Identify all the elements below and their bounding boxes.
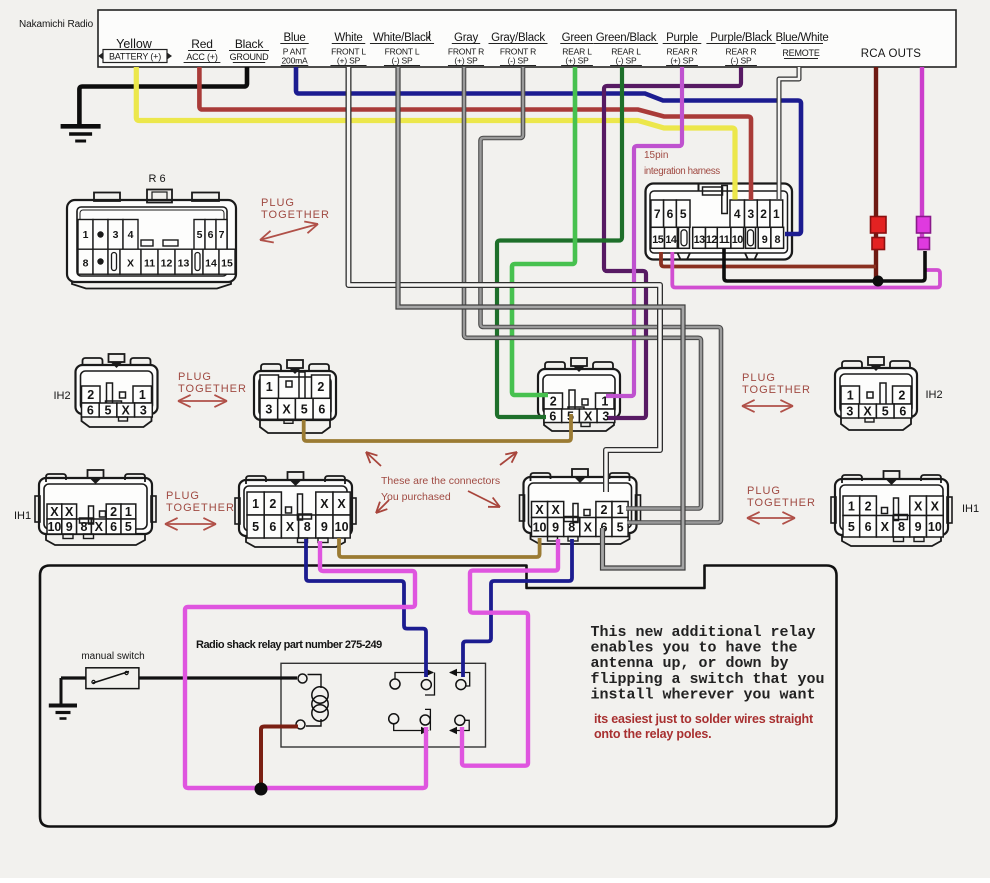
svg-text:GROUND: GROUND [230,52,269,62]
svg-text:2: 2 [110,505,117,519]
svg-text:6: 6 [667,207,674,221]
svg-text:6: 6 [208,229,214,241]
svg-text:14: 14 [205,258,217,270]
svg-text:White/Black: White/Black [373,32,431,44]
svg-text:15: 15 [652,234,664,246]
svg-text:6: 6 [865,520,872,534]
svg-text:4: 4 [734,207,741,221]
svg-text:9: 9 [915,520,922,534]
svg-text:5: 5 [197,229,203,241]
svg-text:(+) SP: (+) SP [337,56,361,66]
svg-text:X: X [551,503,560,517]
svg-text:13: 13 [178,258,190,270]
svg-text:3: 3 [265,402,272,416]
svg-text:TOGETHER: TOGETHER [178,383,247,395]
svg-text:6: 6 [110,520,117,534]
svg-text:Gray: Gray [454,32,478,44]
svg-text:5: 5 [882,405,889,419]
svg-text:X: X [584,521,593,535]
svg-text:enables you to have the: enables you to have the [591,640,798,657]
svg-text:13: 13 [694,234,706,246]
svg-text:9: 9 [762,234,768,246]
svg-text:(-) SP: (-) SP [616,56,638,66]
svg-text:Radio shack relay part number: Radio shack relay part number 275-249 [196,639,382,651]
svg-text:(-) SP: (-) SP [731,56,753,66]
svg-text:6: 6 [549,409,556,423]
svg-text:(+) SP: (+) SP [565,56,589,66]
svg-text:flipping a switch that you: flipping a switch that you [591,671,825,688]
svg-text:12: 12 [706,234,718,246]
svg-text:2: 2 [600,503,607,517]
svg-text:TOGETHER: TOGETHER [261,209,330,221]
svg-text:9: 9 [66,520,73,534]
svg-text:Black: Black [235,37,265,51]
svg-text:3: 3 [113,229,119,241]
svg-text:11: 11 [719,234,730,246]
svg-text:2: 2 [87,388,94,402]
svg-text:11: 11 [144,258,155,270]
svg-text:1: 1 [266,380,273,394]
svg-text:2: 2 [550,395,557,409]
svg-text:X: X [122,404,131,418]
svg-text:1: 1 [83,229,89,241]
svg-text:Purple: Purple [666,32,698,44]
svg-text:12: 12 [161,258,173,270]
svg-text:1: 1 [847,389,854,403]
svg-text:BATTERY (+): BATTERY (+) [109,52,161,62]
svg-text:5: 5 [105,404,112,418]
svg-text:7: 7 [219,229,225,241]
svg-text:5: 5 [680,207,687,221]
svg-text:10: 10 [47,520,61,534]
svg-text:6: 6 [899,405,906,419]
svg-text:5: 5 [617,521,624,535]
svg-text:2: 2 [269,497,276,511]
svg-text:X: X [95,520,104,534]
svg-text:8: 8 [774,234,780,246]
svg-text:X: X [50,505,59,519]
svg-text:9: 9 [552,521,559,535]
svg-text:3: 3 [748,207,755,221]
svg-text:X: X [337,497,346,511]
svg-text:PLUG: PLUG [747,485,781,497]
svg-text:PLUG: PLUG [742,372,776,384]
svg-text:(-) SP: (-) SP [392,56,414,66]
svg-text:REMOTE: REMOTE [782,48,819,58]
svg-text:its easiest just to solder wir: its easiest just to solder wires straigh… [594,712,814,726]
svg-text:Purple/Black: Purple/Black [710,32,772,44]
svg-text:X: X [286,520,295,534]
svg-text:Red: Red [191,37,212,51]
svg-text:PLUG: PLUG [178,371,212,383]
svg-text:integration harness: integration harness [644,166,720,177]
svg-text:X: X [320,497,329,511]
svg-text:7: 7 [654,207,661,221]
svg-text:10: 10 [335,520,349,534]
svg-text:6: 6 [318,402,325,416]
svg-text:Nakamichi Radio: Nakamichi Radio [19,19,94,30]
svg-text:White: White [334,32,362,44]
svg-text:3: 3 [846,405,853,419]
svg-text:ACC (+): ACC (+) [186,52,218,62]
svg-text:15: 15 [221,258,233,270]
svg-text:X: X [931,499,940,513]
svg-text:Green/Black: Green/Black [596,32,657,44]
svg-text:TOGETHER: TOGETHER [166,502,235,514]
svg-text:5: 5 [848,520,855,534]
svg-text:TOGETHER: TOGETHER [747,497,816,509]
svg-text:X: X [881,520,890,534]
svg-text:8: 8 [81,520,88,534]
svg-text:PLUG: PLUG [166,490,200,502]
svg-text:PLUG: PLUG [261,197,295,209]
svg-text:Blue/White: Blue/White [775,32,828,44]
svg-text:8: 8 [898,520,905,534]
svg-text:X: X [863,405,872,419]
svg-text:(+) SP: (+) SP [454,56,478,66]
svg-text:IH1: IH1 [962,503,979,515]
svg-text:10: 10 [928,520,942,534]
svg-text:1: 1 [139,388,146,402]
svg-text:6: 6 [87,404,94,418]
svg-text:install wherever you want: install wherever you want [591,686,816,703]
svg-text:IH2: IH2 [53,390,70,402]
svg-text:1: 1 [848,499,855,513]
svg-text:3: 3 [140,404,147,418]
svg-text:200mA: 200mA [282,56,308,66]
svg-text:10: 10 [533,521,547,535]
svg-text:X: X [127,258,134,270]
svg-text:R 6: R 6 [148,173,165,185]
svg-text:antenna up, or down by: antenna up, or down by [591,655,789,672]
svg-text:RCA OUTS: RCA OUTS [861,48,922,60]
svg-text:8: 8 [83,258,89,270]
svg-text:This new additional relay: This new additional relay [591,624,816,641]
svg-text:10: 10 [732,234,744,246]
svg-text:X: X [584,409,593,423]
svg-text:14: 14 [665,234,677,246]
svg-text:1: 1 [773,207,780,221]
svg-text:1: 1 [125,505,132,519]
svg-text:IH1: IH1 [14,510,31,522]
svg-text:You purchased: You purchased [381,491,451,503]
svg-text:9: 9 [321,520,328,534]
svg-text:IH2: IH2 [925,389,942,401]
svg-text:15pin: 15pin [644,150,668,161]
svg-text:Gray/Black: Gray/Black [491,32,545,44]
svg-text:6: 6 [269,520,276,534]
svg-text:2: 2 [760,207,767,221]
svg-text:manual switch: manual switch [81,651,144,662]
svg-text:Blue: Blue [283,32,305,44]
svg-text:Green: Green [562,32,593,44]
svg-text:2: 2 [898,389,905,403]
svg-text:5: 5 [125,520,132,534]
svg-text:2: 2 [317,380,324,394]
svg-text:(+) SP: (+) SP [670,56,694,66]
svg-text:2: 2 [865,499,872,513]
svg-text:X: X [282,402,291,416]
svg-text:4: 4 [128,229,134,241]
svg-text:8: 8 [304,520,311,534]
svg-text:1: 1 [617,503,624,517]
svg-text:5: 5 [252,520,259,534]
svg-text:These are the connectors: These are the connectors [381,475,500,487]
svg-text:5: 5 [301,402,308,416]
svg-text:TOGETHER: TOGETHER [742,384,811,396]
svg-text:1: 1 [252,497,259,511]
svg-text:X: X [65,505,74,519]
svg-text:(-) SP: (-) SP [508,56,530,66]
svg-text:onto the relay poles.: onto the relay poles. [594,727,711,741]
svg-text:X: X [535,503,544,517]
svg-text:X: X [914,499,923,513]
